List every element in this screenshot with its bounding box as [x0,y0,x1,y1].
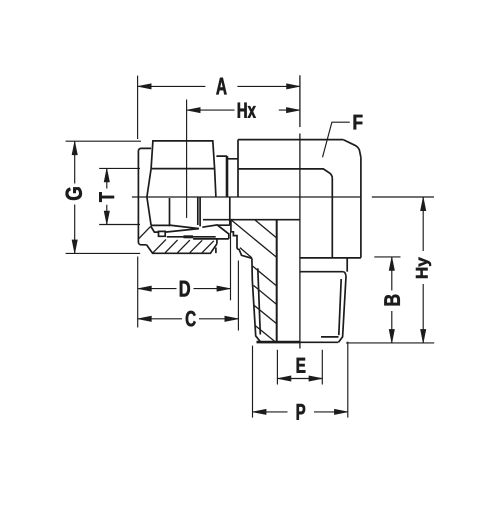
nut bore back verticals [198,198,200,227]
label A [216,78,226,95]
dimension C [138,261,238,331]
body bottom edge [300,257,361,259]
dimension B [374,257,400,343]
thread left root section [258,268,261,334]
hatch body corner [232,220,277,258]
dimension A [138,76,300,139]
body mouth engagement lines [202,225,229,239]
shank right edge [346,258,348,272]
hatch nut lower band [139,227,214,253]
nut back notch [215,248,217,254]
centerline vertical port axis upper extension [299,75,301,127]
centerline horizontal extension to Hy [372,196,434,198]
label T [99,192,114,202]
nut back lower edge [216,239,218,244]
dimension Hy [346,197,434,343]
collar step upper [216,156,238,159]
front ferrule cone lower [165,229,199,233]
elbow outer corner [343,140,361,158]
nut hex bottom edge [147,244,217,254]
nut hex top edge [151,141,215,169]
label Hy [416,257,431,278]
shank bottom line [300,271,343,273]
thread runout curve [343,272,346,277]
bore floor line [203,219,300,221]
bottom face [261,341,338,343]
thread root bottom tick [321,336,339,338]
label B [384,295,399,306]
body top edge [238,139,343,141]
body thread end lower [217,197,230,225]
label F [354,115,363,129]
thread right root [339,279,341,335]
nut face cone [147,169,151,226]
collar lines lower section [167,237,229,239]
body right edge [360,157,362,257]
ferrule step slant [151,226,159,232]
centerline horizontal axis [132,196,361,198]
nut hex flat line lower [151,224,170,226]
nut back thick edge [226,156,229,197]
back ferrule thick mark [184,235,194,238]
thread left crest section [252,258,261,342]
label C [186,311,196,327]
nut back face [215,169,216,197]
body front face [237,140,239,197]
body hex flat line with corner chamfer [238,169,332,178]
dimension P [253,342,348,418]
dimension Hx [187,100,300,218]
bore wall vertical [276,220,278,343]
thread right crest [339,277,347,343]
nut left face [138,148,151,244]
centerline vertical port axis [299,134,301,349]
body staircase outline [231,220,252,259]
back ferrule square [159,231,166,236]
label P [297,404,305,420]
leader F [323,122,350,157]
label E [297,358,306,373]
dimension E [277,350,322,385]
nut section vertical [169,198,171,226]
bottom face thick left [257,341,300,344]
body inner hex vertical [331,178,333,258]
nut hex flat line upper [151,168,215,170]
hatch thread walls [253,266,277,342]
label G [66,187,82,200]
front ferrule cone upper [169,225,199,229]
dimension T [99,168,140,224]
dimension D [138,232,231,328]
label Hx [238,103,256,118]
dimension G [66,141,141,253]
label D [180,281,190,297]
